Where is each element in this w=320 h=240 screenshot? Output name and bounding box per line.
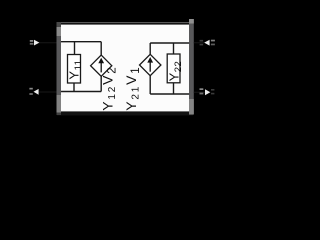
wire: left diamond bottom bbox=[100, 76, 102, 91]
wire: Y22 bottom bbox=[173, 83, 175, 94]
terminal arrow bottom-left bbox=[34, 89, 39, 95]
wire: left bottom rail bbox=[61, 91, 101, 93]
dependent source Y12V2 diamond bbox=[91, 55, 112, 76]
bottom border bbox=[61, 111, 189, 115]
wire: right bottom rail bbox=[150, 93, 189, 95]
terminal arrow top-right bbox=[204, 40, 209, 46]
terminal arrow bottom-right bbox=[205, 89, 210, 95]
wire: drop to Y11 top bbox=[74, 42, 76, 55]
port label bottom-left bbox=[29, 88, 32, 90]
faint outside wire TR bbox=[194, 42, 204, 43]
arrow inside left diamond bbox=[100, 61, 102, 73]
wire: drop to Y22 top bbox=[173, 43, 175, 54]
faint outside wire TL bbox=[39, 42, 57, 43]
resistor Y22 bbox=[167, 54, 180, 83]
wire: Y11 bottom bbox=[73, 83, 75, 92]
port label bottom-right bbox=[200, 88, 204, 90]
wire: right top rail bbox=[150, 42, 189, 44]
faint outside wire BR bbox=[194, 92, 205, 93]
arrow inside right diamond bbox=[149, 60, 151, 72]
wire: drop to left diamond bbox=[100, 42, 102, 55]
top border bbox=[61, 22, 189, 23]
port label top-right bbox=[211, 40, 215, 42]
two-port box body bbox=[57, 22, 193, 115]
port label top-left bbox=[30, 40, 33, 42]
right border bar bbox=[189, 19, 194, 115]
resistor Y11 bbox=[68, 55, 81, 84]
faint outside wire BL bbox=[39, 91, 57, 92]
terminal arrow top-left bbox=[34, 40, 39, 46]
left border bar bbox=[57, 22, 62, 115]
wire: drop to right diamond bbox=[149, 43, 151, 54]
wire: left top rail bbox=[61, 41, 101, 43]
wire: right diamond bottom bbox=[149, 76, 151, 94]
dependent source Y21V1 diamond bbox=[140, 54, 161, 75]
